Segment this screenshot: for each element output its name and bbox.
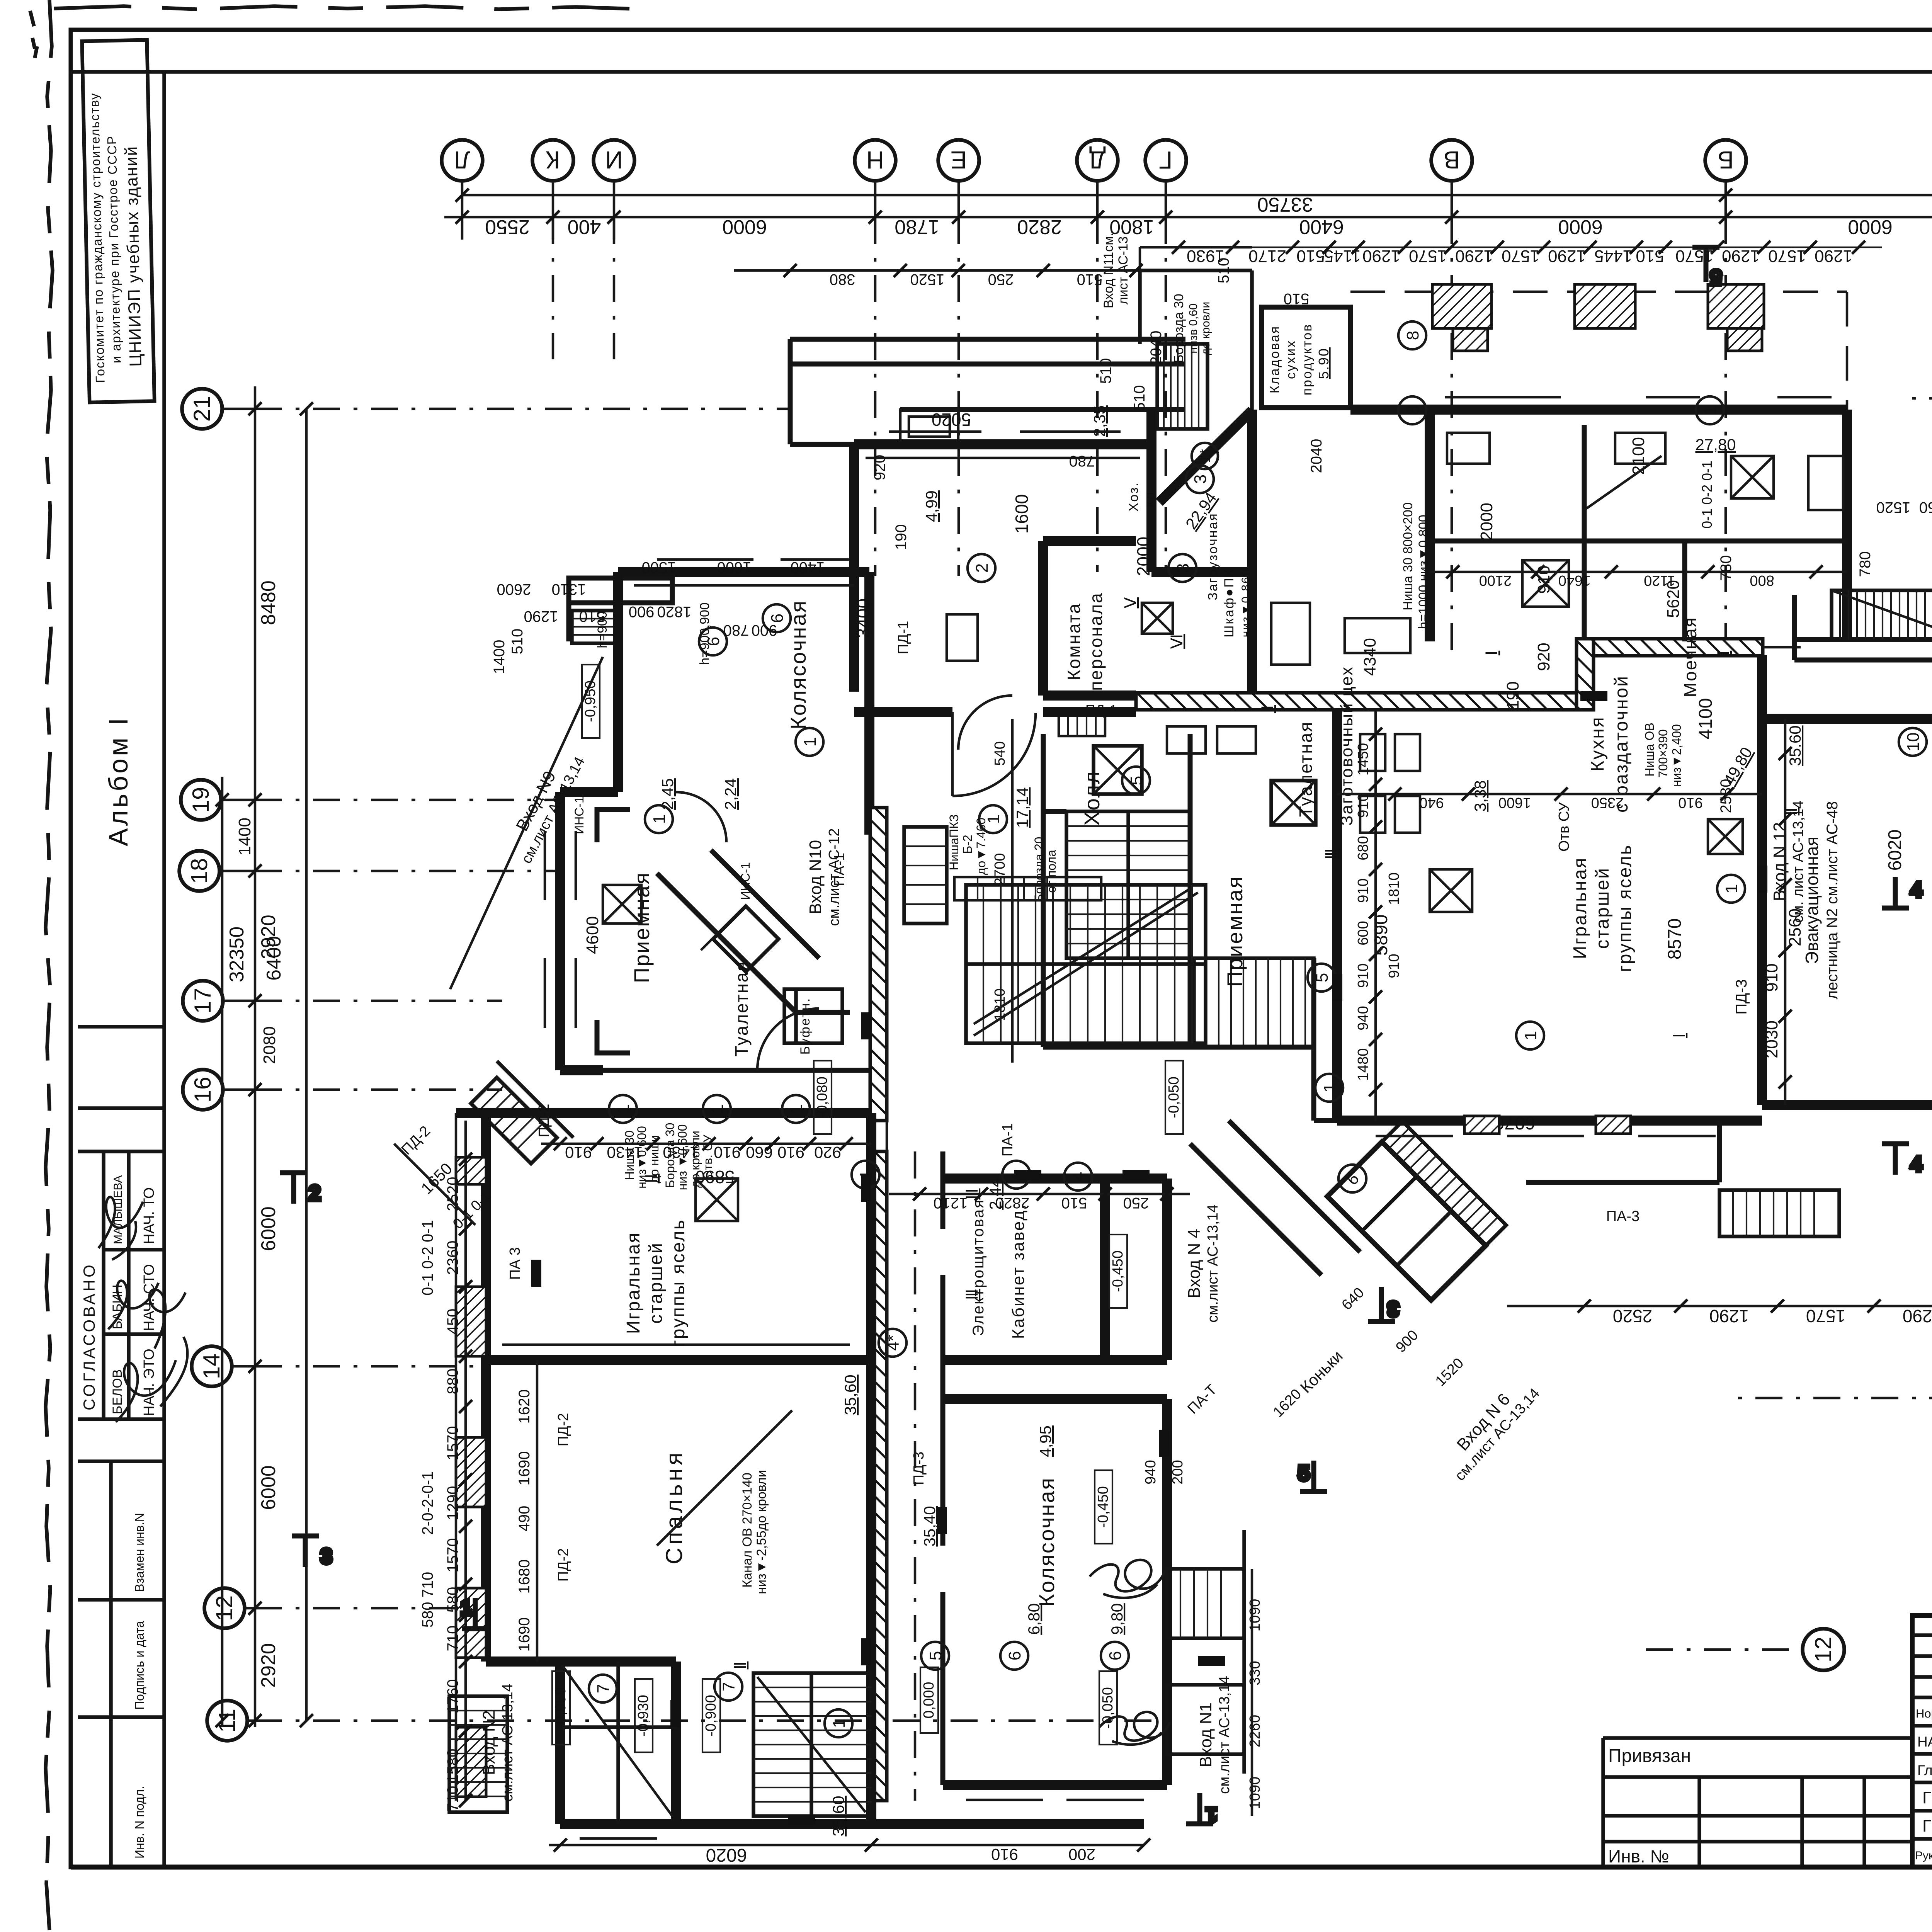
svg-text:ИНС-1: ИНС-1 bbox=[572, 796, 586, 834]
top-left small dims cluster bbox=[491, 294, 1212, 674]
svg-text:кл.: кл. bbox=[1142, 486, 1156, 507]
svg-text:1: 1 bbox=[787, 1104, 806, 1114]
svg-text:Борозда 30: Борозда 30 bbox=[663, 1123, 677, 1188]
svg-text:СОГЛАСОВАНО: СОГЛАСОВАНО bbox=[80, 1262, 98, 1410]
svg-text:Отв. СУ: Отв. СУ bbox=[701, 1134, 715, 1180]
svg-text:1210: 1210 bbox=[934, 1194, 968, 1211]
svg-text:группы ясель: группы ясель bbox=[1615, 844, 1635, 972]
svg-text:3: 3 bbox=[1388, 1298, 1399, 1320]
svg-text:700×390: 700×390 bbox=[1656, 729, 1670, 777]
svg-text:1120: 1120 bbox=[1644, 572, 1675, 588]
svg-text:5: 5 bbox=[1710, 266, 1721, 288]
svg-text:Рук.гр.арх: Рук.гр.арх bbox=[1915, 1849, 1932, 1862]
svg-text:12: 12 bbox=[211, 1595, 237, 1621]
svg-text:старшей: старшей bbox=[1592, 867, 1613, 949]
dashes on lower center corridor bbox=[914, 1151, 917, 1801]
svg-text:-0,450: -0,450 bbox=[1110, 1250, 1126, 1292]
svg-text:Шкаф●ПК: Шкаф●ПК bbox=[1222, 568, 1236, 637]
svg-text:5020: 5020 bbox=[932, 410, 971, 430]
left axis circles bbox=[179, 389, 247, 1741]
approval table SOGLASOVANO bbox=[78, 1151, 164, 1461]
window sill double lines top walls bbox=[657, 397, 1832, 560]
entrance N1 porch extra dims bbox=[1143, 1460, 1263, 1809]
hall partitions bbox=[1043, 734, 1337, 1121]
svg-text:2600: 2600 bbox=[497, 581, 531, 598]
svg-text:-0,450: -0,450 bbox=[1095, 1486, 1111, 1528]
svg-text:Взамен инв.N: Взамен инв.N bbox=[133, 1513, 146, 1592]
svg-text:200: 200 bbox=[1170, 1460, 1186, 1484]
svg-text:ГАП: ГАП bbox=[1922, 1788, 1932, 1807]
entrance N9 leader line bbox=[450, 657, 603, 989]
svg-text:18: 18 bbox=[186, 858, 212, 884]
extra interior dimension chains : playroom left bbox=[1374, 711, 1377, 1121]
right axis circles bbox=[1803, 264, 1932, 1670]
svg-text:6: 6 bbox=[1005, 1651, 1024, 1660]
svg-text:-0,950: -0,950 bbox=[553, 1687, 569, 1729]
svg-text:510: 510 bbox=[1131, 385, 1148, 411]
svg-text:Ниша 30 800×200: Ниша 30 800×200 bbox=[1401, 502, 1415, 611]
extra fixtures bbox=[603, 456, 1843, 1221]
svg-text:Хоз.: Хоз. bbox=[1126, 481, 1141, 512]
svg-text:510: 510 bbox=[1215, 258, 1232, 284]
scan specks top-left corner bbox=[30, 11, 37, 58]
left stamp: Goskomitet box bbox=[82, 40, 155, 402]
svg-text:Ⅱ: Ⅱ bbox=[731, 1662, 749, 1670]
left dimension chain line bbox=[254, 386, 257, 1727]
svg-text:19: 19 bbox=[188, 787, 214, 813]
small store cells bbox=[560, 1662, 676, 1824]
svg-text:5: 5 bbox=[1298, 1462, 1310, 1485]
svg-text:910: 910 bbox=[1386, 954, 1402, 978]
svg-text:510: 510 bbox=[1284, 290, 1310, 307]
playroom bottom window sills bbox=[1376, 1135, 1716, 1138]
svg-text:4100: 4100 bbox=[1696, 698, 1716, 740]
svg-text:2520: 2520 bbox=[1613, 1306, 1652, 1326]
misc short dims upper mid bbox=[1215, 258, 1932, 577]
svg-text:1290: 1290 bbox=[1722, 247, 1760, 265]
svg-text:ГИП: ГИП bbox=[1922, 1816, 1932, 1835]
svg-text:16: 16 bbox=[190, 1077, 216, 1103]
svg-text:-0,050: -0,050 bbox=[1166, 1077, 1182, 1118]
svg-text:1090: 1090 bbox=[1247, 1777, 1263, 1810]
svg-text:6020: 6020 bbox=[706, 1845, 747, 1865]
svg-text:Ⅱ: Ⅱ bbox=[1782, 808, 1800, 816]
svg-text:920: 920 bbox=[1534, 643, 1553, 671]
svg-text:Привязан: Привязан bbox=[1608, 1746, 1691, 1766]
svg-text:1450: 1450 bbox=[1355, 743, 1371, 776]
svg-text:2260: 2260 bbox=[1247, 1715, 1263, 1748]
svg-text:Ниша ОВ: Ниша ОВ bbox=[1643, 723, 1656, 777]
svg-text:200: 200 bbox=[1068, 1845, 1095, 1864]
svg-text:1290: 1290 bbox=[1903, 1306, 1932, 1326]
svg-text:Ниша 30: Ниша 30 bbox=[622, 1131, 636, 1180]
svg-text:Комната: Комната bbox=[1064, 602, 1084, 680]
svg-text:1570: 1570 bbox=[1806, 1306, 1845, 1326]
evacuation stair block bbox=[1794, 595, 1932, 680]
sidebar separator lines bbox=[78, 1025, 164, 1029]
svg-text:4: 4 bbox=[1911, 879, 1922, 901]
underlined spot levels bbox=[658, 405, 1804, 1836]
svg-text:33750: 33750 bbox=[1257, 193, 1313, 216]
duct channel diagonal label in bedroom bbox=[657, 1410, 792, 1546]
svg-text:НАЧ.АМ-1: НАЧ.АМ-1 bbox=[1917, 1734, 1932, 1750]
svg-text:Инв. №: Инв. № bbox=[1608, 1846, 1669, 1866]
axis dashed continuations into plan bbox=[553, 217, 1932, 692]
playroom center-right walls bbox=[1337, 710, 1762, 1121]
svg-text:Вход N2: Вход N2 bbox=[480, 1710, 498, 1775]
svg-text:ПД-1: ПД-1 bbox=[895, 621, 912, 655]
top chain dimension numbers (upside down) bbox=[485, 216, 1893, 238]
svg-text:35,60: 35,60 bbox=[841, 1374, 859, 1415]
svg-text:Туалетная: Туалетная bbox=[1296, 721, 1316, 817]
upper koljasochnaja bottom wall with door gap bbox=[854, 707, 1136, 717]
svg-text:Инв. N подл.: Инв. N подл. bbox=[133, 1786, 146, 1859]
svg-text:35,60: 35,60 bbox=[829, 1796, 847, 1836]
svg-text:Отв СУ: Отв СУ bbox=[1556, 802, 1572, 852]
svg-text:710: 710 bbox=[444, 1786, 461, 1812]
hall column chains bbox=[1011, 719, 1014, 1063]
svg-text:21: 21 bbox=[189, 396, 215, 422]
svg-text:Ⅰ: Ⅰ bbox=[1483, 651, 1501, 655]
svg-text:Канал ОВ 270×140: Канал ОВ 270×140 bbox=[740, 1473, 755, 1588]
svg-text:Д: Д bbox=[1089, 146, 1105, 174]
roman numeral window marks bbox=[642, 597, 1800, 1669]
svg-text:1620: 1620 bbox=[516, 1389, 533, 1424]
kitchen block interior dims bbox=[1361, 437, 1932, 1133]
washroom partition walls in kitchen block bbox=[1430, 425, 1847, 641]
top axis letter circles (rotated 180, scan upside-down) bbox=[442, 140, 1932, 181]
svg-text:Моечная: Моечная bbox=[1680, 616, 1700, 697]
svg-text:1: 1 bbox=[708, 1104, 727, 1114]
svg-text:1800: 1800 bbox=[1109, 216, 1154, 238]
svg-text:7: 7 bbox=[594, 1684, 613, 1693]
bottom-right chain of lower area bbox=[1507, 1305, 1932, 1308]
svg-text:Электрощитовая: Электрощитовая bbox=[970, 1199, 987, 1336]
koljasochnaja lower room bbox=[943, 1399, 1167, 1785]
svg-text:3: 3 bbox=[1173, 563, 1192, 573]
svg-text:450: 450 bbox=[444, 1309, 461, 1335]
svg-text:Альбом I: Альбом I bbox=[103, 716, 133, 846]
svg-text:1400: 1400 bbox=[235, 818, 254, 855]
hall west steps bbox=[904, 827, 947, 923]
svg-text:580 710: 580 710 bbox=[419, 1572, 436, 1628]
svg-text:380: 380 bbox=[830, 271, 855, 288]
svg-text:660: 660 bbox=[746, 1143, 773, 1162]
svg-text:1500: 1500 bbox=[642, 559, 676, 576]
svg-text:10: 10 bbox=[1904, 733, 1923, 752]
svg-text:400: 400 bbox=[568, 216, 601, 238]
svg-text:2-0-2-0-1: 2-0-2-0-1 bbox=[419, 1471, 436, 1535]
svg-text:510: 510 bbox=[1061, 1194, 1087, 1211]
svg-text:800: 800 bbox=[1750, 572, 1774, 588]
bottom frame thick line bbox=[71, 1865, 1932, 1870]
svg-text:Б-2: Б-2 bbox=[961, 835, 975, 854]
svg-text:низ ▼0,600: низ ▼0,600 bbox=[675, 1124, 689, 1190]
svg-text:490: 490 bbox=[516, 1506, 533, 1532]
svg-text:Колясочная: Колясочная bbox=[1034, 1477, 1059, 1607]
svg-text:низ▼2,400: низ▼2,400 bbox=[1670, 724, 1684, 787]
svg-text:250: 250 bbox=[1123, 1194, 1149, 1211]
svg-text:2920: 2920 bbox=[257, 1643, 280, 1688]
sidebar bottom blocks bbox=[78, 1461, 164, 1867]
svg-text:-0,050: -0,050 bbox=[1100, 1687, 1116, 1729]
svg-text:Заготовочный цех: Заготовочный цех bbox=[1337, 666, 1356, 826]
panel tags bbox=[507, 621, 1639, 1582]
entrance N9 canopy bbox=[569, 578, 672, 641]
svg-text:250: 250 bbox=[1919, 499, 1932, 516]
svg-text:600: 600 bbox=[1355, 921, 1371, 945]
svg-text:2000: 2000 bbox=[1477, 503, 1496, 541]
svg-text:-0,900: -0,900 bbox=[703, 1695, 719, 1736]
svg-text:В: В bbox=[1444, 146, 1460, 174]
svg-text:190: 190 bbox=[893, 524, 910, 550]
top center canopy lines bbox=[1140, 247, 1252, 270]
svg-text:группы ясель: группы ясель bbox=[668, 1219, 689, 1347]
svg-text:2170: 2170 bbox=[1248, 247, 1286, 265]
upper-left wing extra door arcs bbox=[676, 696, 1012, 1070]
svg-text:НАЧ. ТО: НАЧ. ТО bbox=[141, 1187, 157, 1244]
svg-text:510: 510 bbox=[1097, 358, 1114, 384]
svg-text:Туалетная: Туалетная bbox=[731, 961, 752, 1056]
chain top of playroom bbox=[1337, 793, 1762, 796]
entrance N11 stair bbox=[1140, 270, 1252, 429]
svg-text:до кровли: до кровли bbox=[1199, 302, 1212, 355]
svg-text:низв 0,60: низв 0,60 bbox=[1187, 303, 1200, 354]
svg-text:h=900,900: h=900,900 bbox=[697, 602, 712, 665]
svg-text:780: 780 bbox=[723, 622, 749, 639]
svg-text:780: 780 bbox=[1718, 555, 1735, 581]
svg-text:880: 880 bbox=[444, 1369, 461, 1395]
toilet diagonal walls bbox=[657, 850, 850, 1012]
svg-text:2030: 2030 bbox=[1762, 1020, 1781, 1058]
svg-text:-0,950: -0,950 bbox=[582, 680, 599, 722]
svg-text:5.90: 5.90 bbox=[1316, 347, 1332, 379]
level marks boxed bbox=[552, 665, 1183, 1752]
larder room (kladovaja) bbox=[1262, 307, 1350, 408]
svg-text:540: 540 bbox=[992, 741, 1008, 765]
svg-text:3: 3 bbox=[321, 1545, 332, 1568]
svg-text:5: 5 bbox=[1127, 776, 1146, 785]
bottom chain of lower-left wing bbox=[549, 1844, 1144, 1847]
room labels bbox=[623, 323, 1932, 1607]
head office / electrical room bbox=[943, 1179, 1167, 1360]
svg-text:2820: 2820 bbox=[995, 1194, 1030, 1211]
svg-text:НАЧ. ЭТО: НАЧ. ЭТО bbox=[141, 1349, 157, 1416]
svg-text:Ⅴ: Ⅴ bbox=[1121, 597, 1139, 608]
svg-text:Спальня: Спальня bbox=[661, 1449, 687, 1564]
hall niche small stripes block bbox=[1059, 713, 1105, 736]
svg-text:4,99: 4,99 bbox=[922, 490, 940, 522]
svg-text:1570: 1570 bbox=[1409, 247, 1447, 265]
svg-text:7: 7 bbox=[719, 1682, 738, 1691]
svg-text:6,80: 6,80 bbox=[1025, 1603, 1043, 1635]
svg-text:лестница N2 см.лист АС-48: лестница N2 см.лист АС-48 bbox=[1824, 801, 1841, 999]
svg-text:1600: 1600 bbox=[1012, 494, 1032, 534]
svg-text:3400: 3400 bbox=[853, 599, 873, 638]
svg-text:1820: 1820 bbox=[657, 603, 692, 620]
svg-text:1570: 1570 bbox=[1768, 247, 1806, 265]
svg-text:низ▼0,600: низ▼0,600 bbox=[635, 1126, 649, 1189]
svg-text:1760: 1760 bbox=[444, 1679, 461, 1714]
svg-text:1: 1 bbox=[1320, 1083, 1339, 1092]
svg-text:1600: 1600 bbox=[717, 559, 752, 576]
roof dashed edge with window piers bbox=[1350, 291, 1847, 293]
svg-text:см.лист АС-13,14: см.лист АС-13,14 bbox=[500, 1684, 516, 1802]
svg-text:1290: 1290 bbox=[1709, 1306, 1749, 1326]
svg-text:1570: 1570 bbox=[1502, 247, 1539, 265]
svg-text:1445: 1445 bbox=[1594, 247, 1632, 265]
hall stair 1 bbox=[1066, 811, 1190, 958]
wall: service block left bbox=[1151, 410, 1252, 696]
svg-text:1290: 1290 bbox=[1548, 247, 1586, 265]
svg-text:до ниши: до ниши bbox=[647, 1135, 661, 1183]
svg-text:Приемная: Приемная bbox=[1223, 876, 1247, 987]
svg-text:1290: 1290 bbox=[1362, 247, 1400, 265]
svg-text:Игральная: Игральная bbox=[623, 1232, 644, 1334]
svg-text:6020: 6020 bbox=[1885, 830, 1905, 871]
svg-text:Б: Б bbox=[1718, 146, 1734, 174]
svg-text:780: 780 bbox=[1069, 452, 1095, 469]
svg-text:продуктов: продуктов bbox=[1300, 323, 1315, 396]
approval signatures bbox=[99, 1197, 143, 1260]
svg-text:17,14: 17,14 bbox=[1013, 787, 1031, 828]
porch right of N6 with steps bbox=[1719, 1190, 1839, 1236]
svg-text:1: 1 bbox=[1722, 884, 1741, 893]
svg-text:Игральная: Игральная bbox=[1570, 857, 1590, 959]
svg-text:580: 580 bbox=[444, 1587, 461, 1613]
svg-text:4600: 4600 bbox=[583, 916, 602, 954]
svg-text:1090: 1090 bbox=[1247, 1599, 1263, 1632]
svg-text:2: 2 bbox=[973, 563, 992, 573]
svg-text:2,24: 2,24 bbox=[721, 778, 740, 810]
svg-text:1290: 1290 bbox=[1815, 247, 1852, 265]
buffet niche bbox=[784, 989, 842, 1043]
svg-text:Борозда 30: Борозда 30 bbox=[1172, 294, 1186, 363]
playroom / bedroom divider bbox=[486, 1355, 871, 1365]
svg-text:910: 910 bbox=[991, 1845, 1018, 1864]
svg-text:ПД-2: ПД-2 bbox=[536, 1104, 552, 1138]
right lower porch dims near box 13 bbox=[1270, 1284, 1467, 1420]
svg-text:Ⅲ: Ⅲ bbox=[1322, 849, 1340, 860]
svg-text:ИНС-1: ИНС-1 bbox=[738, 862, 752, 900]
svg-text:2: 2 bbox=[309, 1182, 320, 1204]
title block outer bbox=[1912, 1616, 1932, 1867]
svg-text:910: 910 bbox=[1678, 794, 1702, 811]
svg-text:11: 11 bbox=[214, 1709, 240, 1733]
svg-text:сухих: сухих bbox=[1284, 340, 1298, 379]
svg-text:низ▼0.860: низ▼0.860 bbox=[1240, 568, 1252, 638]
hall chain under stair bbox=[889, 1193, 1190, 1196]
svg-text:см.лист АС-13,14: см.лист АС-13,14 bbox=[1216, 1676, 1233, 1794]
svg-text:920: 920 bbox=[871, 455, 888, 481]
svg-text:1400: 1400 bbox=[491, 640, 508, 674]
chain bedroom left bbox=[1784, 719, 1787, 1105]
scribble corrections on plan bbox=[1090, 1560, 1165, 1598]
svg-text:9,80: 9,80 bbox=[1108, 1603, 1126, 1635]
svg-text:h=900: h=900 bbox=[595, 611, 610, 648]
svg-text:1310: 1310 bbox=[552, 581, 586, 598]
svg-text:3: 3 bbox=[1191, 474, 1210, 484]
svg-text:1: 1 bbox=[1701, 406, 1720, 415]
svg-text:h=1000 низ▼0.800: h=1000 низ▼0.800 bbox=[1416, 515, 1431, 629]
svg-text:ПА-1: ПА-1 bbox=[1000, 1123, 1016, 1156]
staff room walls bbox=[1043, 541, 1136, 696]
window pier hatched blocks bbox=[1432, 284, 1492, 328]
svg-text:1: 1 bbox=[461, 1597, 472, 1619]
svg-text:1: 1 bbox=[1206, 1804, 1217, 1826]
svg-text:6000: 6000 bbox=[1558, 216, 1603, 238]
outer west wall with window piers bbox=[456, 1113, 871, 1662]
svg-text:1640: 1640 bbox=[1558, 572, 1591, 588]
axis 12 bottom leader + 4900 dim bbox=[1646, 1648, 1803, 1651]
svg-text:Гл.инж.м.: Гл.инж.м. bbox=[1917, 1762, 1932, 1778]
svg-text:Ⅱ: Ⅱ bbox=[1259, 705, 1277, 713]
bedroom south wall and stair block bbox=[486, 1113, 1144, 1824]
svg-text:1690: 1690 bbox=[516, 1451, 533, 1486]
entrance N4 porch bbox=[1167, 1530, 1244, 1774]
svg-text:4,95: 4,95 bbox=[1036, 1425, 1054, 1457]
svg-text:3,38: 3,38 bbox=[1471, 780, 1489, 812]
svg-text:0-1 0-2 0-1: 0-1 0-2 0-1 bbox=[419, 1220, 436, 1296]
svg-text:Ⅲ: Ⅲ bbox=[963, 1289, 981, 1300]
svg-text:Кухня: Кухня bbox=[1587, 716, 1608, 771]
elevator shafts with X bbox=[1094, 746, 1142, 794]
paper top torn edge bbox=[54, 6, 645, 9]
svg-text:510: 510 bbox=[1077, 271, 1103, 288]
svg-text:Н: Н bbox=[866, 146, 884, 174]
svg-text:1: 1 bbox=[650, 815, 669, 824]
svg-text:8: 8 bbox=[1403, 331, 1422, 340]
ПА-3 long wall under playroom bbox=[1526, 1121, 1719, 1182]
svg-text:ПД-3: ПД-3 bbox=[911, 1452, 927, 1485]
svg-text:Вход N 4: Вход N 4 bbox=[1185, 1229, 1204, 1298]
hall landing strip bbox=[954, 877, 1101, 900]
svg-text:8570: 8570 bbox=[1665, 918, 1685, 960]
svg-text:И: И bbox=[605, 146, 623, 174]
svg-text:см.лист АС-13,14: см.лист АС-13,14 bbox=[1205, 1204, 1221, 1323]
svg-text:1400: 1400 bbox=[791, 559, 825, 576]
west window piers bbox=[456, 1157, 486, 1184]
svg-text:1: 1 bbox=[1521, 1031, 1540, 1040]
section cut flags bbox=[280, 247, 1922, 1826]
svg-text:910: 910 bbox=[1762, 963, 1781, 992]
small fixtures kitchen bbox=[1522, 560, 1569, 607]
svg-text:910: 910 bbox=[1355, 963, 1371, 988]
svg-text:Г: Г bbox=[1159, 146, 1173, 174]
svg-text:6400: 6400 bbox=[1299, 216, 1344, 238]
lower boundary of reception bbox=[560, 1068, 869, 1073]
svg-text:2100: 2100 bbox=[1479, 572, 1512, 588]
svg-text:8480: 8480 bbox=[257, 580, 280, 625]
svg-text:1290: 1290 bbox=[524, 608, 558, 625]
svg-text:35.60: 35.60 bbox=[1786, 725, 1804, 766]
top sub-chain small dims bbox=[1179, 247, 1882, 248]
svg-text:14: 14 bbox=[199, 1354, 224, 1379]
svg-text:6000: 6000 bbox=[722, 216, 767, 238]
wc fixtures row bbox=[1360, 734, 1472, 912]
svg-text:0,000: 0,000 bbox=[921, 1682, 937, 1718]
svg-text:1520: 1520 bbox=[910, 271, 945, 288]
svg-text:-0,080: -0,080 bbox=[814, 1077, 830, 1118]
svg-text:2820: 2820 bbox=[1017, 216, 1062, 238]
svg-text:190: 190 bbox=[1503, 681, 1522, 709]
svg-text:6000: 6000 bbox=[1848, 216, 1893, 238]
svg-text:Е: Е bbox=[951, 146, 967, 174]
reception window sills left bbox=[545, 831, 576, 1028]
svg-text:1: 1 bbox=[801, 737, 820, 747]
svg-text:910: 910 bbox=[1355, 793, 1371, 818]
left interior vertical chains bbox=[464, 1121, 467, 1801]
